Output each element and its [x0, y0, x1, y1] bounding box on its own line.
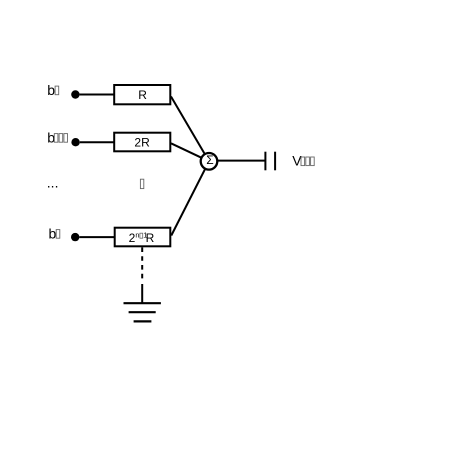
svg-text:b: b: [49, 226, 57, 242]
wire from resistor R to summing node: [171, 97, 209, 162]
resistor R: [114, 85, 170, 104]
summing node U1: [201, 153, 218, 170]
wire b1 to 2^n-1 R: [79, 236, 114, 238]
capacitor plate 2: [274, 152, 276, 171]
resistor 2^n-1 R: [115, 228, 171, 247]
dashed wire from 2^n-1 R down to ground: [141, 247, 143, 281]
input terminal dot b1: [71, 233, 79, 241]
wire from resistor 2R to summing node: [171, 143, 209, 161]
svg-text:R: R: [146, 231, 155, 245]
tofu glyphs (subscript n-1): [54, 134, 58, 143]
ground: [124, 302, 161, 304]
svg-text:b: b: [47, 82, 55, 98]
tofu glyphs (subscript out): [301, 157, 305, 166]
svg-text:2R: 2R: [134, 135, 150, 149]
resistor 2R: [114, 133, 170, 152]
wire bn-1 to 2R: [80, 141, 114, 143]
capacitor plate 1: [264, 152, 266, 171]
tofu glyph (subscript 1): [56, 230, 60, 239]
wire bn to R: [80, 94, 114, 96]
input terminal dot bn: [71, 90, 79, 98]
svg-text:n: n: [135, 231, 139, 240]
input terminal dot bn-1: [71, 138, 79, 146]
svg-text:R: R: [138, 88, 147, 102]
wire from resistor 2^n-1 R to summing node: [171, 161, 209, 235]
svg-text:...: ...: [47, 174, 59, 190]
tofu glyph (vertical ellipsis): [140, 179, 143, 188]
wire summing node to output capacitor: [217, 160, 265, 162]
ground stem: [141, 284, 143, 303]
svg-text:Σ: Σ: [206, 153, 213, 167]
tofu glyph (subscript n): [55, 86, 59, 95]
